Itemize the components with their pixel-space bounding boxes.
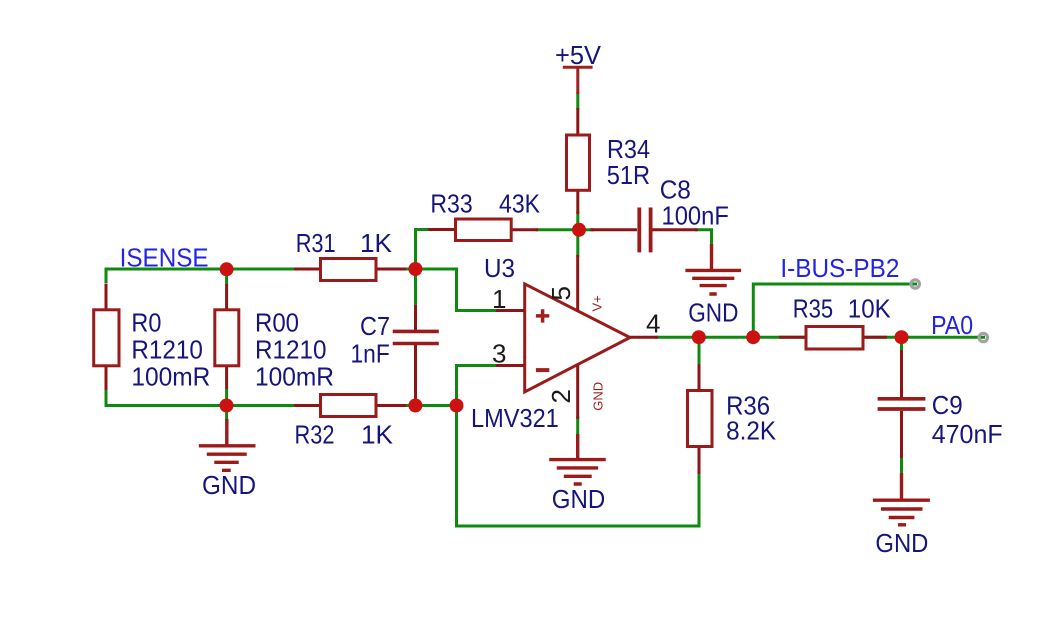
resistor R36 (688, 391, 713, 447)
wire bottom rail right (376, 404, 457, 407)
resistor R0 (94, 310, 119, 366)
svg-text:1: 1 (492, 284, 506, 314)
op-amp plus mark (536, 309, 549, 322)
capacitor C7 (393, 331, 439, 343)
svg-text:LMV321: LMV321 (471, 403, 559, 433)
svg-text:8.2K: 8.2K (726, 416, 777, 446)
svg-text:R0: R0 (131, 308, 161, 338)
wire junction to C8 (583, 228, 594, 231)
svg-text:C9: C9 (932, 390, 963, 420)
capacitor C8 leads (590, 228, 697, 231)
svg-text:470nF: 470nF (932, 419, 1003, 449)
op-amp minus mark (536, 368, 549, 372)
svg-text:5: 5 (546, 286, 576, 300)
svg-text:43K: 43K (499, 189, 541, 219)
wire R33 right to junction (536, 228, 574, 231)
svg-text:I-BUS-PB2: I-BUS-PB2 (780, 253, 899, 283)
ground under op-amp (549, 434, 606, 484)
wire R00 column top (225, 269, 228, 420)
svg-text:ISENSE: ISENSE (120, 243, 209, 273)
junction output B (746, 330, 760, 344)
resistor R31 (321, 259, 377, 281)
resistor R35 (806, 327, 863, 350)
svg-text:51R: 51R (607, 160, 650, 190)
junction output C (895, 330, 909, 344)
svg-text:C7: C7 (360, 311, 390, 341)
capacitor C9 (878, 399, 926, 409)
op-amp pin5 lead (576, 255, 579, 311)
wire junction to R33 left bend (416, 230, 431, 270)
resistor R34 leads (576, 108, 579, 214)
svg-text:3: 3 (492, 339, 506, 369)
resistor R34 (567, 135, 590, 190)
junction output A (692, 330, 706, 344)
wire I-BUS branch (753, 284, 917, 337)
op-amp pin1 lead (496, 309, 524, 312)
wire junction to pin1 (416, 269, 501, 311)
svg-text:100mR: 100mR (131, 362, 210, 392)
svg-text:GND: GND (591, 382, 606, 411)
junction C7 bottom (408, 399, 422, 413)
svg-text:R00: R00 (255, 308, 299, 338)
op-amp U1 triangle (525, 284, 630, 392)
op-amp pin2 lead (576, 365, 579, 419)
resistor R32 leads (294, 404, 406, 407)
resistor R33 leads (428, 228, 538, 231)
resistor R33 (456, 219, 512, 241)
svg-text:4: 4 (646, 309, 660, 339)
wire output to PA0 pin (903, 336, 985, 339)
svg-text:GND: GND (552, 484, 606, 514)
svg-text:100mR: 100mR (255, 362, 334, 392)
junction bottom left (220, 399, 234, 413)
svg-text:1K: 1K (361, 420, 394, 450)
resistor R00 (215, 310, 239, 366)
wire C7 column (414, 269, 417, 330)
junction pin3 node (450, 399, 464, 413)
capacitor C9 leads (900, 350, 903, 458)
svg-text:10K: 10K (848, 294, 892, 324)
resistor R36 leads (698, 364, 701, 474)
svg-text:U3: U3 (484, 253, 515, 283)
svg-text:100nF: 100nF (662, 201, 729, 231)
junction after R31 (408, 262, 422, 276)
wire +5V net (576, 92, 579, 110)
resistor R35 leads (779, 336, 887, 339)
wire pin2 gnd segment (576, 416, 579, 436)
wire ISENSE to R31 junction (376, 268, 417, 271)
wire ISENSE rail (106, 269, 298, 283)
svg-text:2: 2 (546, 389, 576, 403)
svg-text:R32: R32 (295, 420, 335, 450)
ground under C8 (685, 244, 741, 294)
wire C8 right to gnd (695, 230, 712, 246)
op-amp pin3 lead (496, 364, 524, 367)
wire C9 column (900, 337, 903, 475)
wire feedback loop (457, 406, 700, 527)
wire R36 top stub (698, 337, 701, 366)
wire R34 to junction (576, 211, 579, 257)
capacitor C8 (639, 208, 650, 253)
resistor R00 leads (225, 284, 228, 389)
ground under R00 (199, 419, 256, 470)
svg-text:1nF: 1nF (351, 339, 390, 369)
svg-text:R31: R31 (296, 228, 336, 258)
svg-text:GND: GND (202, 470, 256, 500)
svg-text:PA0: PA0 (931, 310, 973, 340)
svg-text:R35: R35 (793, 294, 833, 324)
svg-text:R33: R33 (430, 189, 472, 219)
pin PA0 endpoint (979, 333, 987, 341)
ground under C9 (873, 473, 930, 525)
junction V+ node (572, 223, 586, 237)
supply +5V symbol (563, 67, 593, 94)
svg-text:V+: V+ (590, 295, 605, 311)
junction ISENSE top (220, 262, 234, 276)
capacitor C7 leads (414, 305, 417, 406)
resistor R32 (321, 395, 377, 417)
svg-text:1K: 1K (360, 228, 393, 258)
wire R36 bottom stub (698, 445, 701, 526)
pin I-BUS-PB2 endpoint (911, 280, 919, 288)
svg-text:+5V: +5V (555, 40, 602, 70)
resistor R31 leads (294, 268, 406, 271)
svg-text:GND: GND (688, 298, 738, 328)
wire bottom rail (106, 390, 298, 406)
wire pin3 (457, 366, 501, 406)
svg-text:R1210: R1210 (255, 335, 327, 365)
op-amp pin4 lead (630, 336, 658, 339)
svg-text:R1210: R1210 (131, 335, 203, 365)
wire output (655, 336, 903, 339)
resistor R0 leads (105, 284, 108, 391)
svg-text:GND: GND (875, 528, 928, 558)
